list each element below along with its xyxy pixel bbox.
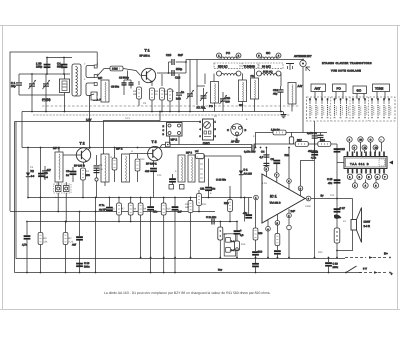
capacitor C2 trimmer 120p <box>36 58 50 75</box>
AF117 pinout <box>227 124 247 144</box>
svg-text:C 2u 10u: C 2u 10u <box>206 216 217 219</box>
trimmer osc left <box>197 88 208 112</box>
OSC box <box>200 119 217 146</box>
wire winding to T2 collector bus <box>89 96 91 148</box>
svg-text:R: R <box>111 156 113 159</box>
svg-text:B: B <box>245 129 247 132</box>
svg-text:0,47u 3v: 0,47u 3v <box>307 132 318 135</box>
keyboard contact 4 <box>327 98 330 118</box>
svg-text:GO: GO <box>357 89 362 93</box>
keyboard contact 7 <box>346 98 349 118</box>
cap left of MF3 <box>169 174 176 188</box>
keyboard contact 10 <box>364 98 367 118</box>
pin circles top <box>264 167 303 196</box>
coil PO top with pins <box>217 51 242 59</box>
chip bottom pins <box>348 169 384 174</box>
keyboard contact 11 <box>371 98 374 118</box>
wire top right corner to tuning <box>186 59 302 61</box>
wires above ic <box>260 148 315 187</box>
dashed shield line y115 <box>33 114 290 116</box>
speaker <box>351 208 371 243</box>
svg-text:(+) (M): (+) (M) <box>42 98 51 102</box>
wire feed row y144 <box>254 144 337 148</box>
capacitor C1 <box>11 74 22 95</box>
caps right of T2 <box>94 155 100 198</box>
battery switch <box>345 266 356 273</box>
svg-text:OSC: OSC <box>203 142 211 146</box>
wires boxes to keyboard <box>314 92 316 100</box>
wire collector right <box>157 72 186 74</box>
capacitor C5 <box>57 58 67 75</box>
diode D2 on x28 <box>26 148 35 198</box>
svg-text:C13: C13 <box>175 76 181 80</box>
svg-text:TONE: TONE <box>375 87 383 91</box>
svg-text:R12: R12 <box>202 203 207 206</box>
svg-text:T 3: T 3 <box>152 140 157 144</box>
pin circles bottom <box>266 209 296 231</box>
MF1a coil box <box>98 76 109 102</box>
wire left vertical x40 <box>40 148 42 198</box>
resistor x230 <box>224 186 232 222</box>
cap C18 500u <box>76 262 90 269</box>
keyboard contact 9 <box>358 98 361 118</box>
svg-text:680: 680 <box>86 174 91 177</box>
wire volume divider <box>200 159 226 198</box>
resistor R5 <box>168 88 173 112</box>
resistor mid x114 <box>112 148 117 183</box>
cap C17b x255.5 <box>252 200 263 258</box>
wire upper row y132.5 <box>256 133 328 148</box>
svg-text:12cW: 12cW <box>364 221 371 224</box>
svg-text:R13: R13 <box>140 158 145 161</box>
svg-text:4u3: 4u3 <box>145 170 150 173</box>
row2: resistor x40.5 <box>38 198 43 273</box>
IC chip TAA611B body <box>344 157 387 169</box>
svg-text:47u: 47u <box>153 211 158 214</box>
svg-text:2uF: 2uF <box>291 210 296 213</box>
resistor x190.5 <box>188 198 193 258</box>
capacitor C17 on x337 <box>334 207 346 219</box>
MF2a coil box <box>101 154 109 186</box>
svg-text:C: C <box>370 139 372 142</box>
wire bus y121 <box>15 121 201 123</box>
svg-text:PO: PO <box>209 105 213 108</box>
wire x314 long vertical <box>314 121 316 258</box>
svg-text:C12: C12 <box>157 174 162 177</box>
narrow coil right x201 <box>199 155 205 182</box>
wire bus y147 <box>22 147 252 149</box>
svg-text:2,2k: 2,2k <box>69 241 74 244</box>
svg-text:4V: 4V <box>343 220 346 223</box>
svg-text:R10: R10 <box>166 208 171 211</box>
svg-text:240: 240 <box>226 101 231 104</box>
pad square on collector wire <box>166 142 171 147</box>
keyboard contact 13 <box>383 98 386 118</box>
wire top left loop <box>10 52 97 211</box>
wire output to speaker <box>311 194 353 199</box>
wire bus AGC y112 <box>22 111 283 113</box>
svg-text:1n: 1n <box>181 90 185 94</box>
svg-text:FU: FU <box>251 75 255 78</box>
svg-text:ANTENNE EXT: ANTENNE EXT <box>294 55 312 58</box>
svg-text:+: + <box>391 272 393 276</box>
svg-text:MF 2: MF 2 <box>171 138 178 142</box>
wire drops to bus <box>31 95 33 112</box>
svg-text:C10: C10 <box>166 53 172 57</box>
chip top pins <box>348 152 385 157</box>
capacitor C18 right <box>273 86 284 97</box>
svg-text:800p: 800p <box>57 65 64 69</box>
MF3a coil box <box>178 155 185 182</box>
capacitor 0,47u <box>307 132 318 144</box>
coil PO bottom with pins <box>217 71 242 76</box>
svg-text:C6: C6 <box>44 172 48 175</box>
capacitor C7a x109.4 <box>99 198 113 212</box>
wire base row y72 <box>97 69 110 77</box>
output pin circle <box>305 196 311 201</box>
svg-text:VUE COTE CABLAGE: VUE COTE CABLAGE <box>331 70 361 73</box>
svg-text:1,5V: 1,5V <box>262 182 267 185</box>
capacitor below R17 <box>308 144 318 160</box>
svg-text:1,6u 3v: 1,6u 3v <box>271 129 280 132</box>
coil L4 box <box>209 82 219 109</box>
wire chip connect <box>337 162 344 164</box>
wire T2 collector to bus <box>89 148 91 150</box>
wire x337 lower <box>336 199 338 229</box>
coil L5 box <box>239 80 247 107</box>
pin 1 input circle <box>254 195 259 200</box>
svg-text:AAT: AAT <box>298 85 303 88</box>
wire antenna drop <box>302 73 304 133</box>
svg-text:4u7: 4u7 <box>72 244 77 247</box>
svg-text:R15: R15 <box>241 243 246 246</box>
svg-text:vol: vol <box>195 150 199 153</box>
antenna jack <box>300 60 310 73</box>
resistor x137 <box>135 154 140 182</box>
resistor x131 <box>138 198 143 258</box>
svg-text:MF: MF <box>98 76 102 80</box>
svg-text:4,7n: 4,7n <box>311 157 317 160</box>
trimmer right <box>187 60 195 112</box>
svg-text:4-0: 4-0 <box>31 175 35 178</box>
caps x208.5 <box>206 216 217 225</box>
svg-text:D 1: D 1 <box>244 169 249 172</box>
capacitor electrolytic x41 <box>38 172 48 179</box>
svg-text:ETAGES CLAVIER TRANSISTORS: ETAGES CLAVIER TRANSISTORS <box>322 62 372 65</box>
resistor R17 <box>295 139 308 146</box>
chip bottom circles row2 <box>352 180 378 189</box>
capacitor C17 osc <box>220 92 231 112</box>
svg-text:94 MC: 94 MC <box>262 65 272 69</box>
svg-text:10n: 10n <box>99 168 104 171</box>
svg-text:0,1V: 0,1V <box>125 117 130 120</box>
svg-text:TAA 611 B: TAA 611 B <box>350 162 369 166</box>
svg-text:ANT: ANT <box>315 87 321 91</box>
capacitor C on x40 branch <box>42 166 51 180</box>
wire bus y221 <box>28 221 237 223</box>
wire bus y272 B- bottom <box>15 272 363 274</box>
svg-text:BF 195 A: BF 195 A <box>140 55 151 58</box>
svg-text:C11: C11 <box>200 188 205 191</box>
resistor R2 <box>137 81 142 106</box>
coil L6 box <box>251 75 259 99</box>
svg-text:2,2V: 2,2V <box>86 118 92 121</box>
arrow marker <box>389 161 393 165</box>
svg-text:47u: 47u <box>328 182 333 185</box>
resistor R4 <box>160 74 165 112</box>
capacitor C8 pair below T1 base <box>119 71 134 96</box>
svg-text:500p: 500p <box>176 67 183 71</box>
svg-text:C 17: C 17 <box>340 207 346 210</box>
wire osc row verticals <box>196 60 198 106</box>
svg-text:1-4: 1-4 <box>44 176 48 179</box>
coupling winding bottom with pins <box>86 83 107 102</box>
trimmer box x219.5 <box>218 222 223 258</box>
svg-text:C13: C13 <box>258 251 263 254</box>
svg-text:T 2: T 2 <box>80 142 85 146</box>
svg-text:4,7u: 4,7u <box>22 244 27 247</box>
transistor T3 <box>146 140 162 166</box>
capacitor C11 mid <box>172 67 183 80</box>
box TONE <box>373 84 390 92</box>
cap x142.5 <box>147 198 158 258</box>
keyboard contact 2 <box>315 98 318 118</box>
transistor T2 <box>74 142 91 168</box>
svg-text:MF 3: MF 3 <box>186 152 192 155</box>
svg-text:R16: R16 <box>224 202 229 205</box>
svg-text:40p: 40p <box>273 93 278 96</box>
svg-text:40k Hyp: 40k Hyp <box>308 150 318 153</box>
wire extensions to bottom bus <box>151 258 175 273</box>
svg-text:10p: 10p <box>11 84 16 88</box>
svg-text:C: C <box>227 129 229 132</box>
keyboard contact 1 <box>309 98 312 118</box>
series cap on bus <box>244 145 256 154</box>
wire bus y197 <box>28 197 252 199</box>
keyboard contact 3 <box>321 98 324 118</box>
resistor x154 <box>161 198 166 258</box>
capacitor below bus x255.5 <box>252 258 259 273</box>
svg-text:120p: 120p <box>36 65 43 69</box>
wire ground row y95 <box>19 94 65 96</box>
svg-text:47u: 47u <box>243 212 248 215</box>
keyboard sub-box separators <box>331 97 369 121</box>
svg-text:2-4 R: 2-4 R <box>364 225 370 228</box>
resistor x120 <box>128 198 133 222</box>
svg-text:3V: 3V <box>214 115 217 118</box>
svg-text:C4: C4 <box>261 151 265 154</box>
wire bus y211 <box>10 211 215 213</box>
coupling winding top with pins <box>86 65 97 78</box>
svg-text:C15: C15 <box>340 148 345 151</box>
wire left vertical B- <box>14 122 16 273</box>
resistor on upper row <box>271 129 286 135</box>
svg-text:R19: R19 <box>258 232 263 235</box>
chip top circles row2 <box>352 145 378 153</box>
capacitor under T2 <box>66 167 76 182</box>
svg-text:B+: B+ <box>384 252 388 256</box>
capacitor C15 <box>334 148 346 152</box>
capacitor C9 <box>176 74 185 112</box>
keyboard contact 8 <box>352 98 355 118</box>
volume feed wire y156 <box>204 156 241 198</box>
resistor x199 <box>197 190 202 212</box>
dashed leads right <box>345 256 391 273</box>
wire osc bottom connections <box>197 85 205 87</box>
capacitor x320.5 <box>318 133 324 145</box>
svg-text:560: 560 <box>185 206 190 209</box>
MF2b coil box <box>116 147 130 183</box>
svg-text:T 1: T 1 <box>145 49 150 53</box>
cap x166 <box>172 198 183 258</box>
svg-text:500u: 500u <box>84 266 90 269</box>
wire T3 collector run <box>160 145 252 148</box>
wire y74 left row <box>19 73 70 75</box>
svg-text:0,47u 38v: 0,47u 38v <box>244 151 256 154</box>
cap C19 bottom right <box>325 258 339 273</box>
trimmer CV1 <box>29 74 37 95</box>
svg-text:C6: C6 <box>271 158 275 161</box>
antenna ferrite coil L2 <box>72 64 81 96</box>
row2: cap x27 <box>22 222 30 273</box>
svg-text:PO: PO <box>337 87 342 91</box>
tuning dial dashed boxes <box>214 63 283 69</box>
resistor on x337 <box>334 228 340 243</box>
svg-text:R21: R21 <box>285 154 290 157</box>
MF1 coil box <box>53 146 63 182</box>
svg-text:C 16 Hfe: C 16 Hfe <box>216 179 226 182</box>
svg-text:R14: R14 <box>223 233 228 236</box>
resistor R18 <box>318 139 331 146</box>
svg-text:2 kM: 2 kM <box>112 68 118 71</box>
coil L7 box AAT <box>288 83 303 105</box>
wire bus y258 <box>16 122 345 259</box>
row2: cap x79.5 <box>72 212 83 273</box>
svg-text:AA 163: AA 163 <box>244 173 253 176</box>
wire y57 top caps feed <box>47 58 72 75</box>
keyboard contact 14 <box>388 98 391 118</box>
T3 emitter cap <box>145 161 157 198</box>
resistor x244.5 <box>244 198 246 222</box>
svg-text:TAA 611 B: TAA 611 B <box>270 202 281 205</box>
MF3 square with pins <box>163 123 183 145</box>
svg-text:R18: R18 <box>320 139 325 142</box>
svg-text:5uF: 5uF <box>178 53 183 57</box>
small box left of MF1a <box>91 92 97 100</box>
resistor R13 <box>195 150 204 159</box>
resistor R1 2k <box>110 66 123 71</box>
box GO <box>353 86 367 94</box>
capacitor C10 top <box>166 53 186 73</box>
svg-text:BF 195-1: BF 195-1 <box>146 163 157 166</box>
svg-text:R17: R17 <box>297 139 302 142</box>
svg-text:C5 50u: C5 50u <box>111 86 120 89</box>
earphone jack pads <box>54 182 72 193</box>
svg-text:9 V: 9 V <box>363 268 367 271</box>
coil GO top with pins <box>257 51 282 59</box>
svg-text:C 7a: C 7a <box>99 204 105 207</box>
svg-text:C8 500p: C8 500p <box>119 77 129 80</box>
coil GO bottom with pins <box>257 71 282 77</box>
jack drops <box>57 193 59 212</box>
ground mid <box>281 112 287 118</box>
wire left vertical x22 <box>21 112 23 148</box>
row2: resistor x65.5 <box>63 222 68 273</box>
svg-text:TUNING: TUNING <box>244 65 256 69</box>
dashed keyboard box <box>307 97 396 121</box>
trimmer CV2 <box>43 74 51 95</box>
wire T3 base <box>130 153 148 155</box>
keyboard contact 6 <box>340 98 343 118</box>
wire T2 base <box>63 154 76 156</box>
chip bottom circles row1 <box>347 174 387 179</box>
svg-text:RT ALL: RT ALL <box>197 106 207 110</box>
coil L1 box <box>60 74 70 95</box>
svg-text:MF 2: MF 2 <box>116 147 123 151</box>
svg-text:C 15: C 15 <box>327 178 333 181</box>
resistor on keyboard feed x291.5 <box>289 133 293 145</box>
wires below ic <box>268 218 291 258</box>
emitter wire + resistor R3 <box>150 81 155 112</box>
svg-text:4u7: 4u7 <box>178 211 183 214</box>
tone dashed box <box>224 234 236 256</box>
wire winding to base row <box>96 52 98 67</box>
chip top circles row1 <box>347 137 384 152</box>
box PO <box>333 84 347 92</box>
svg-text:4u HF: 4u HF <box>99 209 106 212</box>
pads under MF3 <box>169 185 184 190</box>
emitter R under T2 <box>81 162 91 197</box>
svg-text:C9: C9 <box>66 170 70 173</box>
box ANT <box>311 84 326 92</box>
wire speaker bottom loop <box>337 230 353 251</box>
op-amp IC1 triangle <box>262 174 305 223</box>
svg-text:100u: 100u <box>333 266 339 269</box>
svg-text:AF 117: AF 117 <box>231 141 240 144</box>
resistor x108 <box>117 198 122 222</box>
cap C7a x95.5 <box>95 198 97 273</box>
svg-text:R20: R20 <box>318 251 323 254</box>
svg-text:IC 1: IC 1 <box>270 195 277 199</box>
capacitor C15b 47u <box>327 178 340 185</box>
transistor T1 <box>140 49 156 83</box>
misc tiny value labels <box>30 63 346 255</box>
keyboard contact 12 <box>377 98 380 118</box>
MF3b coil box <box>186 152 195 183</box>
wire x337 main vertical <box>336 144 338 199</box>
svg-text:B1B: B1B <box>176 98 181 101</box>
keyboard contact 5 <box>334 98 337 118</box>
plug symbol near antenna <box>286 64 294 71</box>
diode D1 AA163 <box>239 169 253 176</box>
dashed shield line y106 <box>42 105 300 107</box>
wire speaker drop <box>352 199 354 220</box>
svg-text:La diode AA 163 - D1 peut etre: La diode AA 163 - D1 peut etre remplacee… <box>104 291 271 295</box>
svg-text:500 kC: 500 kC <box>218 65 228 69</box>
wire MF2 feed from AGC bus <box>104 112 161 155</box>
x237 chain cap and resistor <box>234 222 244 258</box>
svg-text:10u: 10u <box>211 188 216 191</box>
svg-text:BUB 4Q: BUB 4Q <box>263 71 273 74</box>
svg-text:C14: C14 <box>330 194 335 197</box>
svg-text:4,7: 4,7 <box>260 156 264 159</box>
svg-text:0,5W: 0,5W <box>305 205 311 208</box>
capacitor hang x248.7 <box>243 198 252 218</box>
